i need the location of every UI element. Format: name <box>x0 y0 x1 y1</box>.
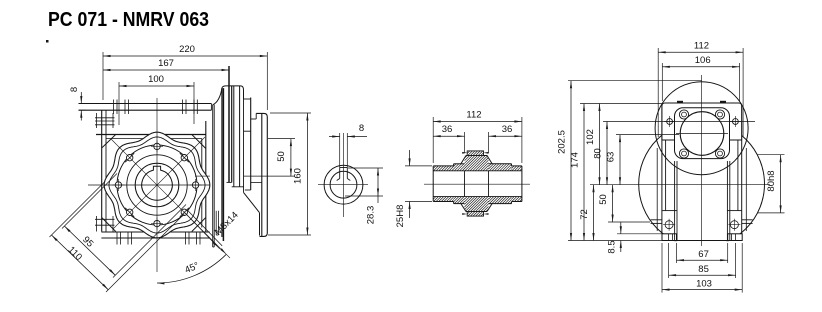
central rect verticals <box>661 140 663 234</box>
collar <box>466 155 487 157</box>
dim 36 left <box>433 124 464 137</box>
dim 25H8 <box>405 165 432 167</box>
dim 220 overall length <box>103 44 267 57</box>
bore lines <box>433 170 522 172</box>
side steps <box>662 210 677 212</box>
bar top tabs <box>677 101 683 103</box>
dim 110 diagonal <box>52 235 109 290</box>
dim 103 <box>662 278 742 290</box>
dim 95 diagonal <box>64 226 115 275</box>
collar keyway tabs <box>467 151 483 156</box>
hump top <box>213 86 244 105</box>
ext lines left <box>568 80 702 82</box>
svg-text:M8x14: M8x14 <box>213 210 241 238</box>
housing circle upper <box>655 82 748 175</box>
dim 106 <box>662 55 739 68</box>
centerlines left view <box>156 98 158 272</box>
svg-text:100: 100 <box>148 74 164 85</box>
feet <box>662 234 677 241</box>
dim 100 <box>119 74 194 87</box>
flange inner contour <box>109 137 205 233</box>
dim 80 <box>593 122 609 185</box>
inner circle <box>127 155 187 215</box>
svg-text:103: 103 <box>696 278 712 289</box>
svg-text:220: 220 <box>179 44 195 55</box>
collar bore square <box>464 171 466 197</box>
svg-text:202.5: 202.5 <box>557 130 568 154</box>
diag extension lines <box>62 174 117 229</box>
svg-text:160: 160 <box>293 168 304 184</box>
gearbox body <box>101 110 103 231</box>
svg-text:72: 72 <box>579 209 590 220</box>
flange circle <box>117 145 197 225</box>
side screw holes <box>665 221 673 229</box>
svg-text:63: 63 <box>606 152 617 163</box>
svg-text:80: 80 <box>593 148 604 159</box>
dim 8 plate thickness <box>79 103 87 105</box>
dim 50 input offset <box>268 138 295 140</box>
keyway slot <box>339 168 341 179</box>
svg-text:36: 36 <box>502 124 513 135</box>
svg-text:36: 36 <box>442 124 453 135</box>
dim 45 deg arc <box>157 254 226 283</box>
svg-text:95: 95 <box>80 234 95 249</box>
svg-text:102: 102 <box>585 129 596 145</box>
dim 50 <box>598 185 614 222</box>
left boss bottom <box>95 218 115 220</box>
svg-text:25H8: 25H8 <box>395 205 406 228</box>
dim 85 <box>669 264 736 276</box>
left boss top <box>95 117 115 119</box>
centerlines right view <box>701 75 703 246</box>
svg-text:67: 67 <box>698 249 709 260</box>
hub circle <box>135 163 179 207</box>
top plate <box>79 103 212 105</box>
svg-text:50: 50 <box>276 151 287 162</box>
shaft centerline <box>424 183 530 185</box>
flange bar <box>662 103 742 140</box>
input spigot <box>675 108 730 159</box>
dim 72 <box>579 185 595 241</box>
dim 36 right <box>489 124 522 137</box>
svg-text:112: 112 <box>466 110 481 121</box>
input bell housing <box>212 105 214 247</box>
svg-text:80h8: 80h8 <box>766 170 777 191</box>
svg-text:110: 110 <box>66 244 84 262</box>
label M8x14 <box>184 212 219 249</box>
dim 8.5 <box>620 222 622 234</box>
bottom plate slots <box>116 232 118 245</box>
X marks tapped holes <box>180 208 189 217</box>
dim 202.5 <box>557 81 573 241</box>
bottom plate <box>101 231 209 233</box>
svg-text:106: 106 <box>695 55 711 66</box>
dim 174 <box>570 104 586 241</box>
svg-text:112: 112 <box>694 41 709 52</box>
bottom face <box>662 240 742 242</box>
svg-text:28.3: 28.3 <box>366 206 377 225</box>
dim 67 <box>677 249 728 261</box>
coupling housing <box>228 66 230 182</box>
svg-text:50: 50 <box>598 194 609 205</box>
svg-text:85: 85 <box>698 264 709 275</box>
shaft outline <box>433 165 453 167</box>
diagonal 45 <box>111 139 230 258</box>
svg-text:8: 8 <box>69 87 80 92</box>
axis PC unit <box>195 175 210 177</box>
dim 167 <box>103 58 229 71</box>
spigot bolt holes <box>679 110 688 119</box>
svg-text:8: 8 <box>359 123 364 134</box>
bottom mask <box>630 241 775 251</box>
dim 112 width <box>658 41 743 54</box>
bore with keyway <box>142 166 173 200</box>
adapter block <box>243 99 245 192</box>
dim 80h8 <box>757 154 784 156</box>
hollow shaft section <box>324 165 363 204</box>
dim 112 shaft <box>433 110 522 123</box>
stray dot <box>47 41 49 43</box>
svg-text:8.5: 8.5 <box>607 240 618 253</box>
svg-text:167: 167 <box>158 58 174 69</box>
housing circle lower <box>639 121 765 247</box>
side cover lines <box>656 148 658 231</box>
bolt holes <box>192 182 198 188</box>
top plate slots <box>113 100 115 115</box>
output flange wavy outline <box>104 132 210 238</box>
svg-text:174: 174 <box>570 152 581 168</box>
dim 160 flange <box>270 112 311 114</box>
centerlines <box>343 133 345 217</box>
input bore <box>680 112 724 156</box>
dim 63 <box>606 135 622 185</box>
dim 28.3 <box>348 167 383 169</box>
motor flange B5 <box>251 118 257 120</box>
dim 102 <box>585 104 601 185</box>
dim 8 keyway width <box>339 133 341 168</box>
diagonal 135 <box>113 137 205 229</box>
side bolt holes <box>667 119 673 125</box>
title <box>48 9 209 32</box>
body corner chamfers <box>102 135 116 149</box>
